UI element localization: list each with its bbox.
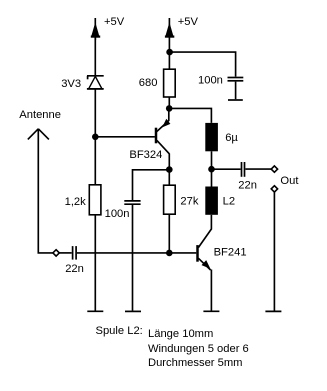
svg-text:3V3: 3V3 [61, 78, 81, 90]
wire 100n mid to ground [132, 205, 134, 311]
resistor 27k [164, 185, 199, 214]
capacitor 100n top [198, 75, 243, 87]
svg-text:BF241: BF241 [214, 246, 247, 258]
wire node A down to 27k [168, 170, 170, 186]
wire 680 top to +5V right junction [168, 52, 170, 69]
power +5V left [91, 16, 125, 40]
resistor 680 [139, 69, 175, 97]
inductor 6u [205, 123, 238, 151]
wire 27k to BF241 base node [168, 214, 170, 253]
power +5V right [165, 16, 199, 52]
svg-text:Out: Out [280, 175, 299, 187]
svg-text:Durchmesser 5mm: Durchmesser 5mm [148, 357, 243, 369]
node BF241 base junction [166, 250, 173, 257]
svg-text:27k: 27k [180, 196, 198, 208]
svg-text:6µ: 6µ [225, 132, 238, 144]
transistor BF241 [169, 229, 246, 270]
svg-text:+5V: +5V [104, 16, 125, 28]
svg-text:Länge 10mm: Länge 10mm [148, 328, 213, 340]
capacitor 22n right [238, 162, 257, 191]
node 680 bottom junction [166, 105, 173, 112]
resistor 1,2k [65, 185, 101, 215]
wire BF241 collector up to L2 [210, 215, 212, 230]
wire L2 top to node B [211, 169, 213, 186]
svg-text:1,2k: 1,2k [65, 196, 87, 208]
capacitor 22n left [65, 246, 84, 275]
wire 22n right to Out terminal [245, 168, 271, 170]
svg-text:100n: 100n [105, 208, 130, 220]
wire junction to 100n top [170, 52, 236, 77]
wire node A to 100n mid [133, 170, 170, 200]
wire Out lower terminal to ground [273, 192, 275, 311]
inductor L2 [205, 187, 235, 215]
node A collector junction [166, 166, 173, 173]
svg-text:Spule L2:: Spule L2: [96, 325, 143, 337]
wire 100n top to ground [235, 82, 237, 100]
wire diamond to 22n [59, 252, 71, 254]
svg-text:Antenne: Antenne [19, 109, 61, 121]
wire node B up to 6u [211, 151, 213, 169]
node B [208, 166, 215, 173]
wire antenna down and right [38, 129, 53, 253]
terminal Out lower diamond [271, 186, 277, 192]
terminal Out upper diamond [271, 166, 277, 172]
svg-text:22n: 22n [65, 263, 84, 275]
node +5V right junction [166, 49, 173, 56]
wire from +5V left to zener [94, 37, 96, 76]
wire zener to left node [94, 89, 96, 185]
ground under BF241 emitter [203, 310, 219, 312]
capacitor 100n mid [105, 201, 141, 220]
svg-text:+5V: +5V [178, 16, 199, 28]
svg-text:22n: 22n [238, 179, 257, 191]
terminal diamond antenna [53, 250, 59, 256]
wire 22n to BF241 base node [77, 252, 169, 254]
ground under 1,2k [87, 310, 103, 312]
ground under 100n top [228, 99, 243, 101]
ground under Out [265, 310, 281, 312]
antenna [19, 109, 61, 140]
svg-text:BF324: BF324 [129, 149, 162, 161]
wire BF241 emitter down to ground [210, 270, 212, 311]
wire 680 junction up [168, 97, 170, 108]
svg-text:Windungen 5 oder 6: Windungen 5 oder 6 [148, 343, 249, 355]
wire node B to 22n right [212, 168, 241, 170]
wire BF324 collector to node A [168, 154, 170, 170]
svg-text:L2: L2 [223, 196, 235, 208]
ground under 100n mid [125, 310, 141, 312]
svg-text:100n: 100n [198, 75, 223, 87]
wire 6u top to 680 bottom junction [169, 108, 211, 123]
node left base junction [92, 134, 99, 141]
wire base of BF324 [95, 136, 155, 138]
transistor BF324 [129, 108, 170, 161]
wire 1,2k to ground [94, 215, 96, 311]
zener diode 3V3 [61, 76, 103, 90]
svg-text:680: 680 [139, 77, 158, 89]
